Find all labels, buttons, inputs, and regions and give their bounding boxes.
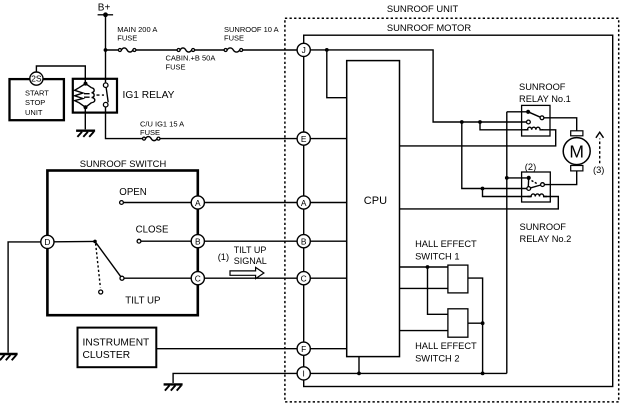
- svg-text:F: F: [301, 344, 306, 354]
- connector 2S on start stop unit: [30, 72, 43, 85]
- wire: OPEN contact to terminal A: [123, 202, 191, 204]
- wire: A to CPU: [310, 202, 347, 204]
- svg-text:SWITCH 1: SWITCH 1: [415, 252, 459, 262]
- contact: OPEN terminal: [120, 201, 124, 205]
- wire: D to switch arm pivot: [54, 240, 95, 242]
- node: relay2 feed branch: [460, 120, 464, 124]
- relay1 arm: [528, 112, 540, 117]
- wire: B to CPU: [310, 240, 347, 242]
- node: J branch junction: [325, 48, 329, 52]
- svg-text:B: B: [195, 237, 201, 247]
- wire: CLOSE contact to terminal B: [141, 240, 192, 242]
- wire: branch to relay1 coil: [480, 122, 529, 130]
- svg-text:FUSE: FUSE: [224, 33, 244, 42]
- svg-text:J: J: [302, 45, 306, 55]
- wire: hall1 output: [468, 278, 483, 323]
- svg-text:UNIT: UNIT: [25, 108, 43, 117]
- wire: switch A to motor A: [204, 202, 297, 204]
- svg-text:(2): (2): [525, 162, 536, 172]
- svg-text:SUNROOF: SUNROOF: [519, 82, 566, 92]
- svg-text:SUNROOF MOTOR: SUNROOF MOTOR: [387, 22, 471, 33]
- relay2 arm link: [527, 178, 529, 187]
- svg-text:CABIN.+B 50A: CABIN.+B 50A: [166, 54, 216, 63]
- wire: switch C to motor C: [204, 277, 297, 279]
- wire: IG1 relay output down and right to fuse/connector E: [106, 107, 298, 139]
- wire: branch to relay2 coil: [483, 189, 532, 197]
- fuse C/U IG1 15 A: [140, 119, 184, 140]
- B+ supply terminal: [98, 2, 114, 17]
- node: hall outputs junction: [481, 321, 485, 325]
- connector F (motor): [297, 342, 310, 355]
- motor M1: [563, 131, 590, 171]
- contact: TILT UP end circle: [120, 276, 124, 280]
- wire: CPU bottom to ground bus: [358, 357, 360, 374]
- svg-text:SIGNAL: SIGNAL: [234, 256, 267, 266]
- wire: C to CPU: [310, 277, 347, 279]
- relay1 common node: [526, 110, 530, 114]
- relay1 fixed contact: [527, 120, 531, 124]
- fuse SUNROOF 10 A: [224, 25, 279, 52]
- wire: E to CPU: [310, 138, 347, 140]
- wire: CPU to hall1 bottom: [400, 287, 448, 289]
- svg-text:B: B: [301, 237, 307, 247]
- connector D: [41, 235, 54, 248]
- svg-text:SUNROOF: SUNROOF: [520, 222, 567, 232]
- relay K1: SUNROOF RELAY No.1 box: [522, 105, 550, 136]
- annotation (1) TILT UP SIGNAL: [218, 245, 267, 266]
- sunroof motor solid enclosure: [304, 35, 613, 386]
- wire: F to CPU: [310, 348, 347, 350]
- svg-text:HALL EFFECT: HALL EFFECT: [415, 239, 477, 249]
- wire: feed down to relay2 contact: [462, 122, 527, 189]
- fuse MAIN 200 A: [117, 25, 157, 52]
- contact: alternate position circle: [99, 290, 103, 294]
- ground: instrument cluster side: [164, 384, 183, 390]
- relay2 fixed contact lower: [527, 187, 531, 191]
- wire: relay common vertical to ground bus: [507, 112, 527, 374]
- wire: relay1 contact to motor: [544, 118, 577, 131]
- svg-text:C: C: [301, 274, 307, 284]
- wire: CPU to hall2 bottom: [400, 330, 448, 332]
- wire: J branch to CPU: [327, 50, 347, 98]
- wire: relay1 coil return to CPU: [400, 130, 556, 146]
- wire: J to relay feed corner: [310, 50, 526, 122]
- svg-text:CPU: CPU: [364, 195, 387, 207]
- IG1 relay coil (resistor + inductor in parallel): [75, 82, 95, 110]
- node: relay1 coil branch: [478, 120, 482, 124]
- connector A (motor): [297, 196, 310, 209]
- svg-text:A: A: [301, 198, 307, 208]
- relay1 moving contact: [540, 116, 544, 120]
- svg-text:RELAY No.1: RELAY No.1: [519, 94, 571, 104]
- svg-text:HALL EFFECT: HALL EFFECT: [415, 341, 477, 351]
- svg-text:C: C: [195, 274, 201, 284]
- relay2 mechanical dash link: [532, 181, 538, 185]
- wire: 2S to IG1 relay coil: [36, 66, 85, 84]
- svg-text:(1): (1): [218, 252, 229, 262]
- relay2 coil: [527, 194, 547, 197]
- connector J (motor): [297, 43, 310, 56]
- relay1 coil: [524, 127, 544, 130]
- svg-text:C/U IG1 15 A: C/U IG1 15 A: [140, 119, 184, 128]
- switch alternate position (dashed): [96, 244, 101, 288]
- svg-text:SUNROOF UNIT: SUNROOF UNIT: [387, 3, 459, 14]
- wire: supply junction down to hall2: [428, 267, 448, 314]
- svg-text:OPEN: OPEN: [119, 187, 146, 198]
- svg-text:FUSE: FUSE: [140, 128, 160, 137]
- connector B (switch): [191, 235, 204, 248]
- wire: connector I to chassis ground: [173, 373, 297, 383]
- svg-text:M: M: [569, 141, 584, 161]
- wire: junction to relay2 common: [507, 177, 527, 179]
- ground: below IG1 relay coil: [84, 107, 86, 129]
- hall effect switch 1 box: [448, 265, 468, 293]
- svg-text:START: START: [25, 88, 49, 97]
- node: relay2 common junction: [505, 176, 509, 180]
- wire: switch B to motor B: [204, 240, 297, 242]
- svg-text:I: I: [303, 369, 305, 379]
- hall effect switch 2 box: [448, 309, 468, 337]
- relay2 moving contact: [541, 183, 545, 187]
- connector B (motor): [297, 235, 310, 248]
- connector A (switch): [191, 196, 204, 209]
- wire: relay2 coil return to CPU: [400, 197, 559, 209]
- sunroof unit dashed enclosure: [285, 18, 619, 402]
- svg-text:CLUSTER: CLUSTER: [83, 350, 131, 361]
- relay2 common node: [527, 176, 531, 180]
- svg-text:(3): (3): [593, 165, 604, 175]
- block arrow: tilt up signal direction: [230, 267, 264, 278]
- svg-text:TILT UP: TILT UP: [125, 295, 160, 306]
- wire: D to ground: [8, 242, 41, 353]
- svg-text:B+: B+: [98, 2, 111, 13]
- annotation (3) motion arrow: [593, 132, 604, 175]
- svg-text:INSTRUMENT: INSTRUMENT: [83, 338, 150, 349]
- svg-text:FUSE: FUSE: [166, 62, 186, 71]
- svg-text:SWITCH 2: SWITCH 2: [415, 353, 459, 363]
- wire: B+ vertical down to main bus: [105, 15, 107, 50]
- wire: hall2 output: [468, 323, 483, 373]
- relay K2: SUNROOF RELAY No.2 box: [522, 172, 551, 202]
- CPU box U2: [347, 61, 400, 357]
- connector C (motor): [297, 272, 310, 285]
- svg-text:SUNROOF SWITCH: SUNROOF SWITCH: [80, 158, 166, 169]
- wire: TILT UP contact to terminal C: [124, 277, 191, 279]
- fuse CABIN.+B 50A: [166, 48, 216, 71]
- svg-text:E: E: [301, 134, 307, 144]
- wire: CPU to hall1 top: [400, 266, 448, 268]
- svg-text:CLOSE: CLOSE: [136, 224, 169, 235]
- node: CPU ground stub junction: [357, 372, 361, 376]
- svg-text:IG1 RELAY: IG1 RELAY: [123, 90, 175, 101]
- svg-text:TILT UP: TILT UP: [234, 245, 267, 255]
- connector C (switch): [191, 272, 204, 285]
- svg-text:D: D: [44, 237, 50, 247]
- switch arm to TILT UP contact: [95, 241, 121, 276]
- node: relay2 coil branch: [481, 187, 485, 191]
- node: hall output to ground bus: [481, 372, 485, 376]
- node: B+ bus junction: [104, 48, 108, 52]
- IG1 relay contacts and arm: [97, 83, 109, 107]
- node: hall supply junction: [426, 265, 430, 269]
- wire: B+ into IG1 relay contact: [105, 50, 107, 82]
- contact: CLOSE terminal: [137, 239, 141, 243]
- relay2 arm to moving contact: [531, 185, 541, 188]
- wire: I ground bus: [310, 372, 507, 374]
- svg-text:STOP: STOP: [25, 98, 45, 107]
- connector I (motor): [297, 367, 310, 380]
- svg-text:FUSE: FUSE: [117, 33, 137, 42]
- start stop unit box: [10, 79, 64, 120]
- relay U: IG1 RELAY box: [73, 79, 117, 113]
- svg-text:A: A: [195, 198, 201, 208]
- instrument cluster box: [78, 328, 157, 368]
- svg-text:2S: 2S: [31, 74, 42, 84]
- node: switch arm pivot: [93, 240, 97, 244]
- wire: instrument cluster to connector F: [157, 348, 298, 350]
- sunroof switch box: [47, 171, 197, 316]
- svg-text:RELAY No.2: RELAY No.2: [520, 234, 572, 244]
- wire: main B+ bus to connector J: [106, 49, 298, 51]
- wire: relay2 contact to motor: [544, 171, 576, 185]
- ground: sunroof switch: [0, 354, 18, 360]
- connector E (motor): [297, 132, 310, 145]
